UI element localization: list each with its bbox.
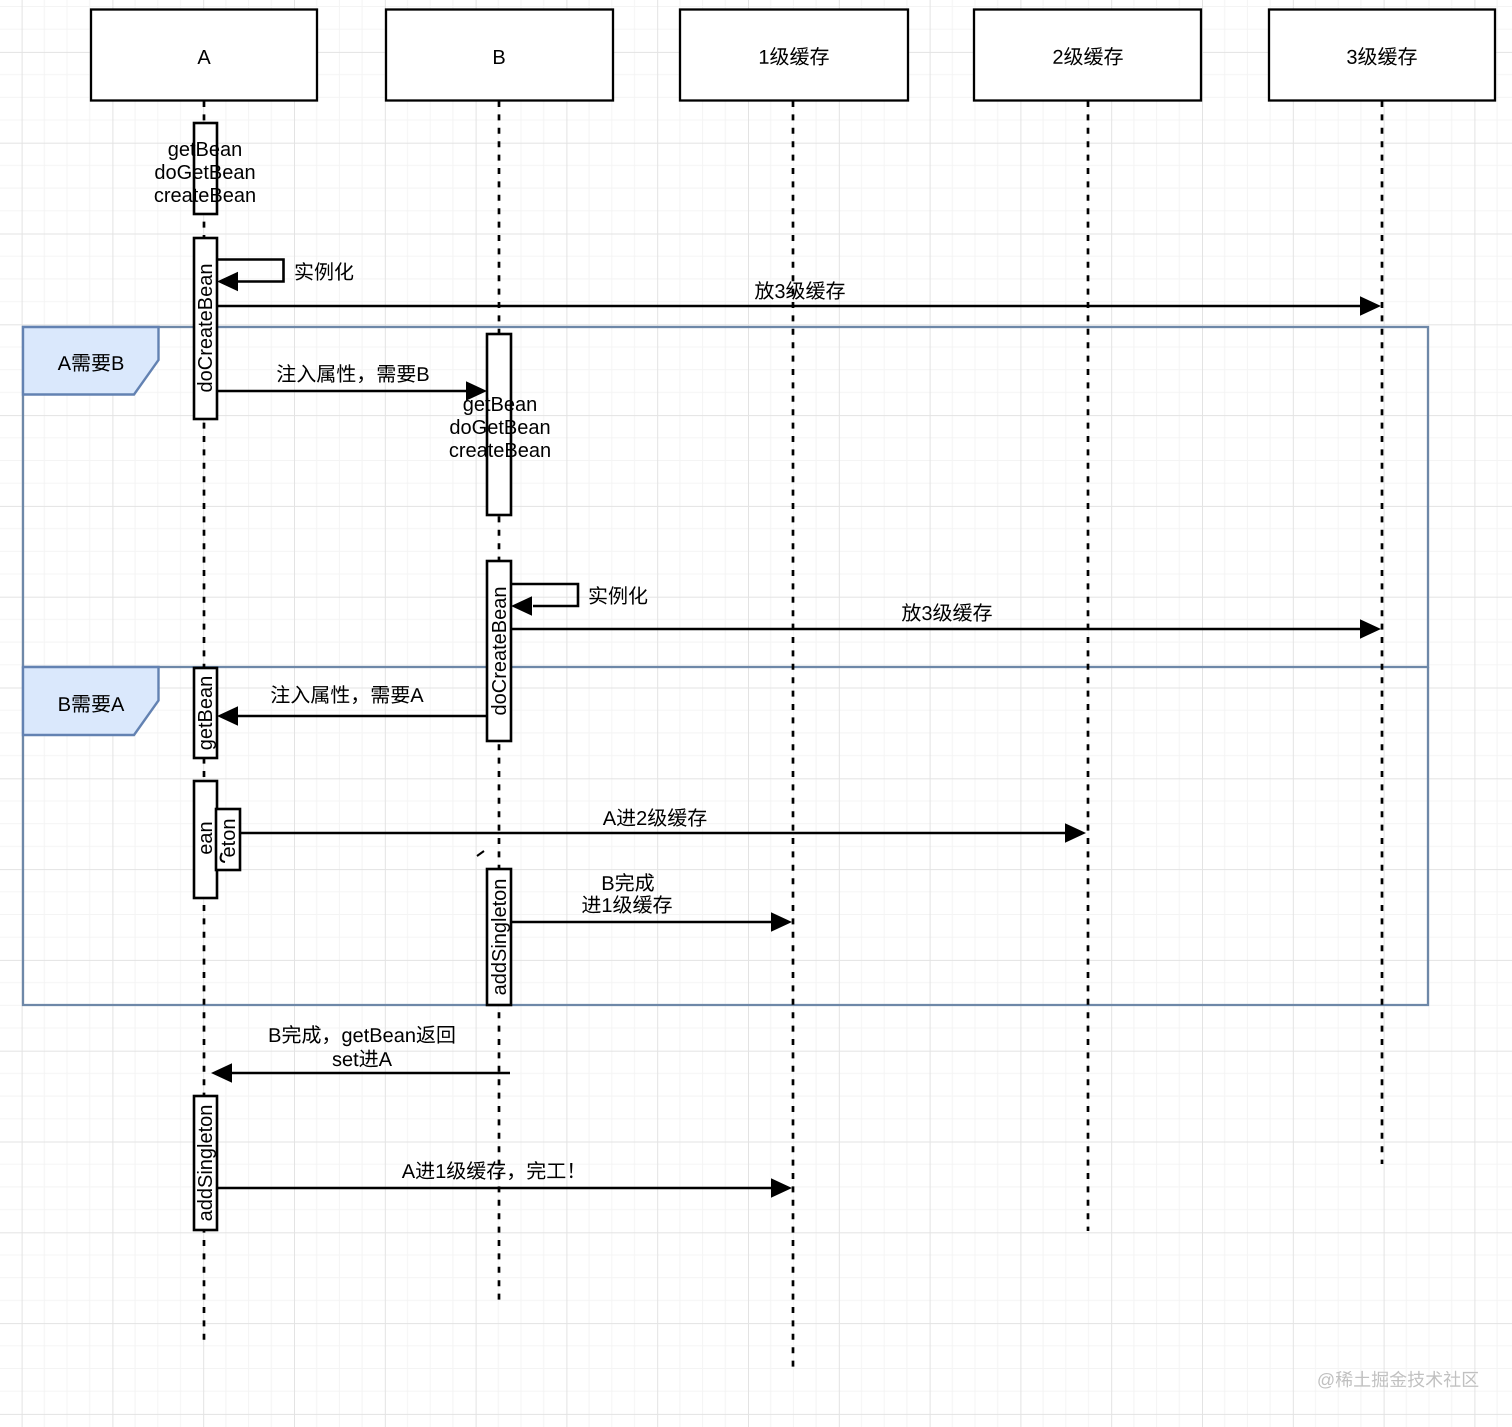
label B1 getBean doGetBean createBean <box>449 394 551 462</box>
svg-text:doCreateBean: doCreateBean <box>489 587 511 716</box>
message A进2级缓存 A to 2级缓存 <box>240 808 1086 843</box>
activation bar B2 doCreateBean <box>487 561 511 741</box>
svg-text:createBean: createBean <box>449 440 551 462</box>
small tick mark <box>477 851 484 856</box>
lifeline A <box>203 101 206 1343</box>
activation bar B3 addSingleton <box>487 869 511 1005</box>
actor box B <box>386 10 613 101</box>
frame label A需要B <box>23 327 159 395</box>
activation bar B1 <box>487 334 511 515</box>
svg-text:eton: eton <box>218 819 240 858</box>
svg-text:createBean: createBean <box>154 185 256 207</box>
svg-text:getBean: getBean <box>195 676 217 751</box>
frame B需要A <box>23 667 1428 1005</box>
frame A需要B <box>23 327 1428 667</box>
svg-text:addSingleton: addSingleton <box>489 879 511 996</box>
watermark <box>1318 1371 1478 1389</box>
message self loop A 实例化 <box>217 260 353 292</box>
activation bar A1 <box>194 123 217 214</box>
lifeline 2级缓存 <box>1087 101 1090 1231</box>
activation bar A6 addSingleton <box>194 1096 217 1230</box>
svg-text:ean: ean <box>195 821 217 854</box>
label A1 getBean doGetBean createBean <box>154 139 256 207</box>
frame label B需要A <box>23 667 159 735</box>
actor box 3级缓存 <box>1269 10 1495 101</box>
svg-text:doGetBean: doGetBean <box>154 162 255 184</box>
message B完成，getBean返回 set进A B to A <box>211 1025 510 1083</box>
activation bar A2 doCreateBean <box>194 238 217 419</box>
lifeline 1级缓存 <box>792 101 795 1367</box>
message 注入属性，需要A B to A <box>217 685 487 726</box>
svg-text:doCreateBean: doCreateBean <box>195 264 217 393</box>
message 放3级缓存 B to 3级缓存 <box>511 603 1381 639</box>
lifeline 3级缓存 <box>1381 101 1384 1164</box>
svg-text:B: B <box>492 47 505 69</box>
svg-text:doGetBean: doGetBean <box>449 417 550 439</box>
message self loop B 实例化 <box>511 584 647 616</box>
actor box 2级缓存 <box>974 10 1201 101</box>
activation bar A4 ean <box>194 781 217 898</box>
svg-text:getBean: getBean <box>168 139 243 161</box>
svg-text:addSingleton: addSingleton <box>195 1105 217 1222</box>
message A进1级缓存，完工！ A to 1级缓存 <box>217 1161 792 1198</box>
lifeline B <box>498 101 501 1300</box>
svg-text:getBean: getBean <box>463 394 538 416</box>
message 放3级缓存 A to 3级缓存 <box>217 281 1381 316</box>
actor box 1级缓存 <box>680 10 908 101</box>
actor box A <box>91 10 317 101</box>
message B完成 进1级缓存 B to 1级缓存 <box>511 873 792 932</box>
message 注入属性，需要B A to B <box>217 364 487 401</box>
activation bar A3 getBean <box>194 668 217 758</box>
activation bar A5 eton <box>216 809 240 870</box>
svg-text:A: A <box>197 47 211 69</box>
